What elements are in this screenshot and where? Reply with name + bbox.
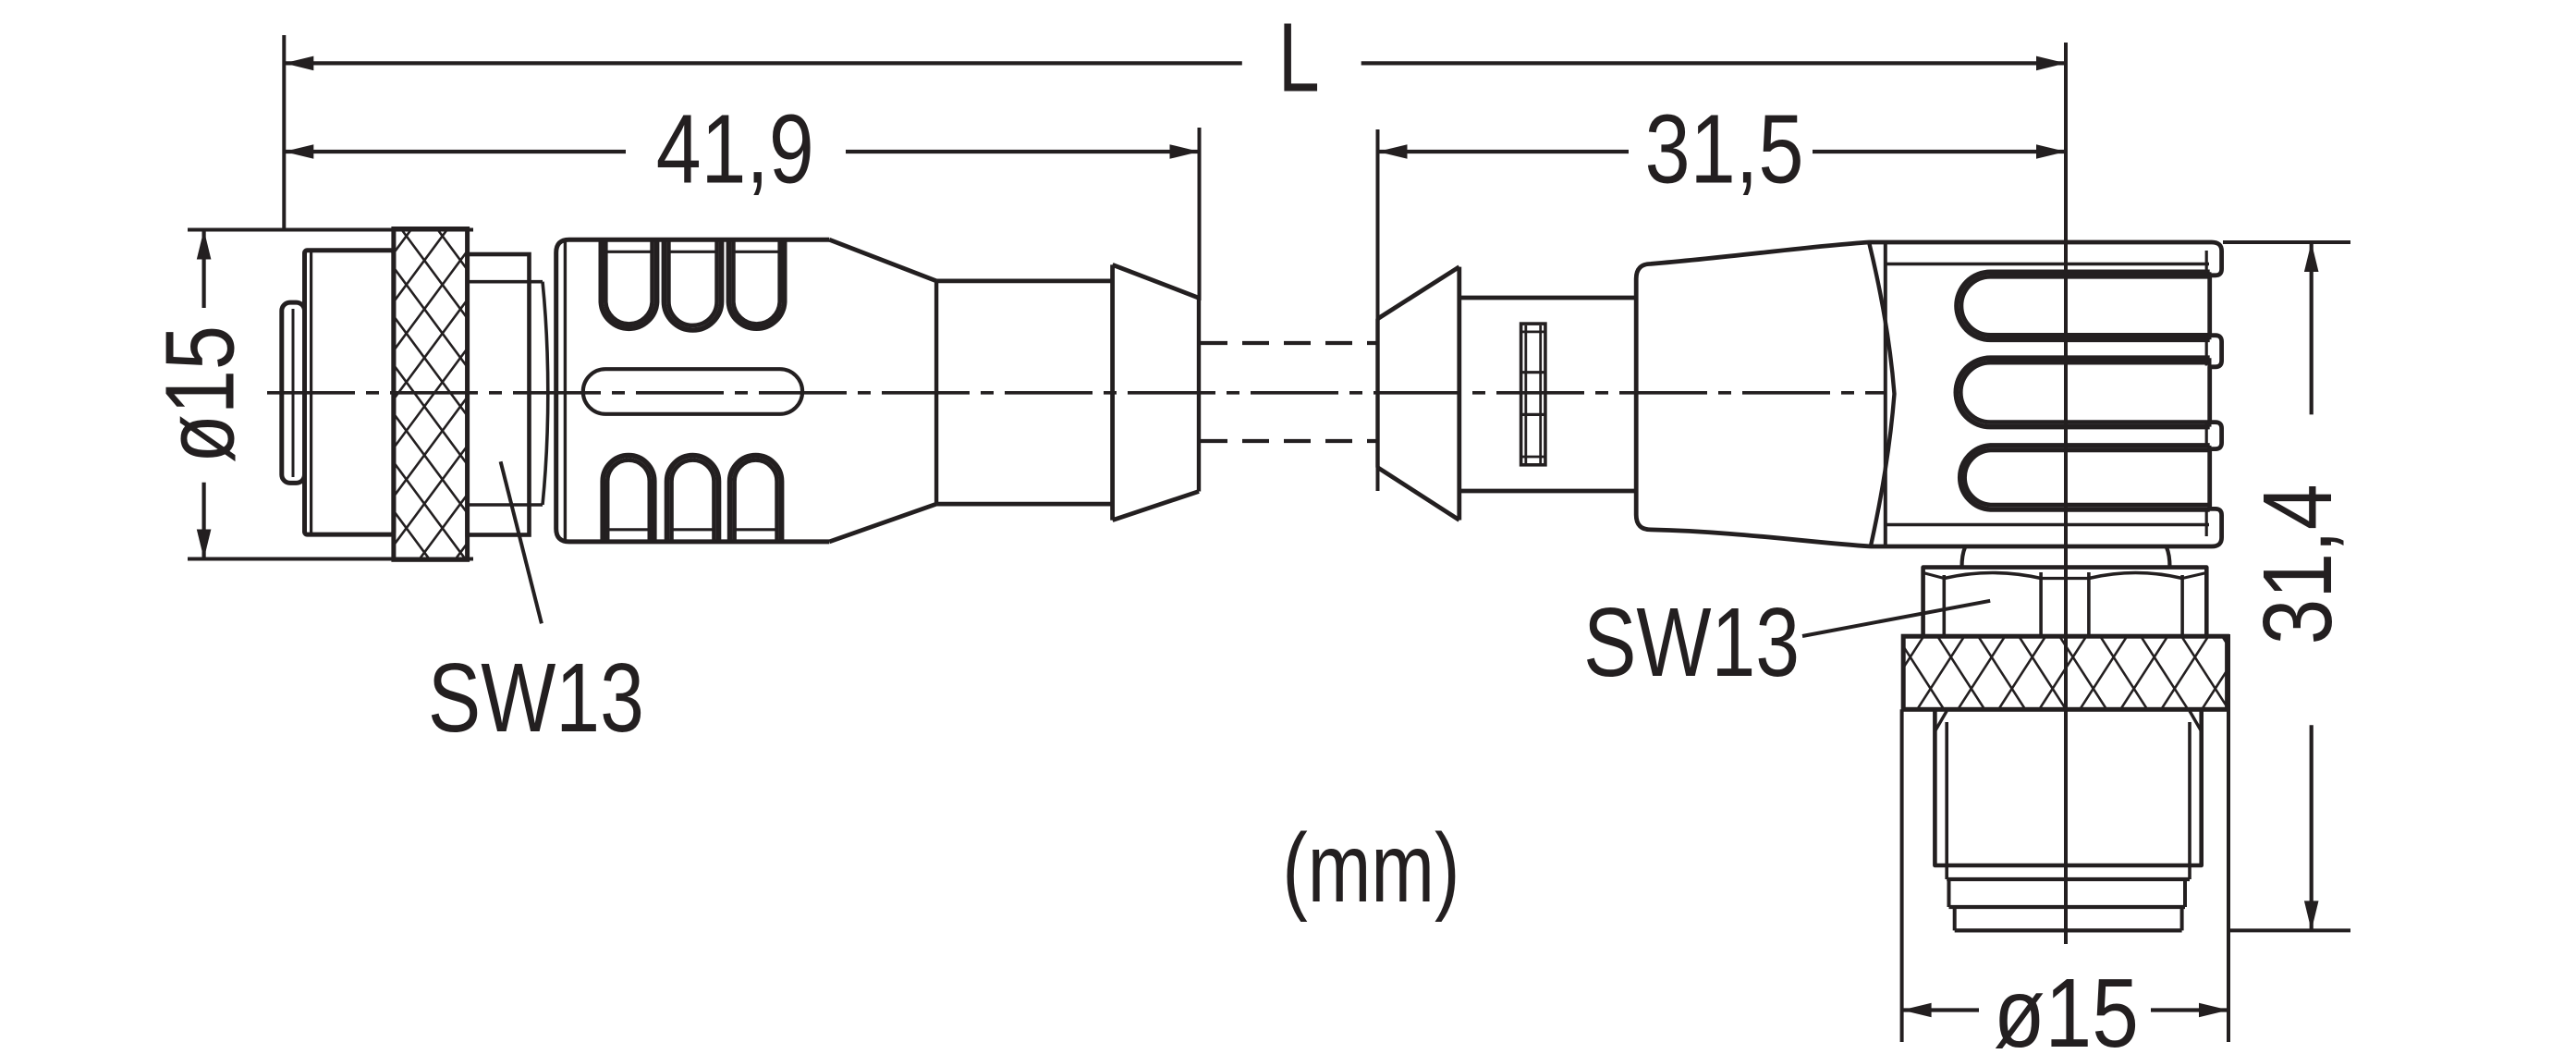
right connector cable sleeve (1459, 296, 1636, 300)
left connector top grip slots (601, 239, 656, 328)
dimension ø15 bottom line (1902, 1008, 1979, 1011)
right connector grip slots (1957, 272, 2210, 339)
svg-text:(mm): (mm) (1282, 814, 1459, 923)
svg-text:SW13: SW13 (1583, 588, 1800, 697)
svg-text:31,4: 31,4 (2243, 484, 2352, 644)
dimension 41,9 line (284, 150, 626, 153)
svg-text:L: L (1278, 3, 1320, 112)
right connector body outline (1636, 242, 2221, 546)
left connector bottom grip slots (603, 456, 654, 542)
dimension 31,5 line (1378, 150, 1630, 153)
center axis line (267, 391, 1886, 395)
left connector bend protection (1110, 264, 1115, 520)
cable top dashed line (1201, 341, 1376, 345)
right connector hex nut SW13 (1923, 568, 2207, 637)
right connector inner bottom line (1886, 523, 2210, 527)
left connector grip body (556, 239, 830, 542)
left connector front lip (282, 302, 305, 483)
svg-text:ø15: ø15 (146, 325, 255, 463)
left connector knurled coupling ring (130, 229, 862, 560)
cable bottom dashed line (1201, 439, 1376, 443)
label SW13 left leader (501, 461, 542, 623)
svg-text:41,9: 41,9 (656, 94, 814, 203)
right connector center axis (2064, 43, 2068, 944)
left connector front body (305, 251, 394, 534)
dimension 31,4 line (2310, 242, 2314, 414)
svg-text:ø15: ø15 (1994, 959, 2139, 1054)
right connector bend protection (1375, 319, 1379, 468)
right connector knurled ring (1836, 636, 2350, 709)
left connector cable sleeve (936, 278, 1113, 283)
right connector threaded body (1935, 709, 2201, 865)
left connector taper cone (829, 239, 936, 281)
right connector body inner vertical (1884, 244, 1887, 546)
dimension ø15 left extension lines (188, 228, 473, 232)
dimension ø15 left line (202, 230, 206, 309)
left connector middle slot (583, 369, 802, 414)
right connector end cap tab edges (2205, 251, 2208, 275)
right connector inner top line (1886, 263, 2210, 266)
dimension L extension line left (282, 35, 286, 230)
dimension L line (284, 61, 1242, 65)
right connector bottom step (1947, 877, 2190, 881)
dimension 31,5 extension line (1376, 129, 1380, 491)
dimension 41,9 extension line (1198, 128, 1202, 300)
right connector neck (1962, 547, 1966, 568)
right connector cable clamp (1521, 324, 1545, 465)
left connector hex nut SW13 (468, 254, 530, 535)
label SW13 right leader (1802, 601, 1990, 636)
right connector waist curve (1869, 243, 1894, 545)
svg-text:31,5: 31,5 (1645, 94, 1804, 203)
dimension 31,4 extension lines (2223, 240, 2350, 244)
svg-text:SW13: SW13 (428, 643, 644, 753)
dimension ø15 bottom extension lines (1900, 709, 1904, 1042)
right connector bottom face (1955, 928, 2182, 932)
